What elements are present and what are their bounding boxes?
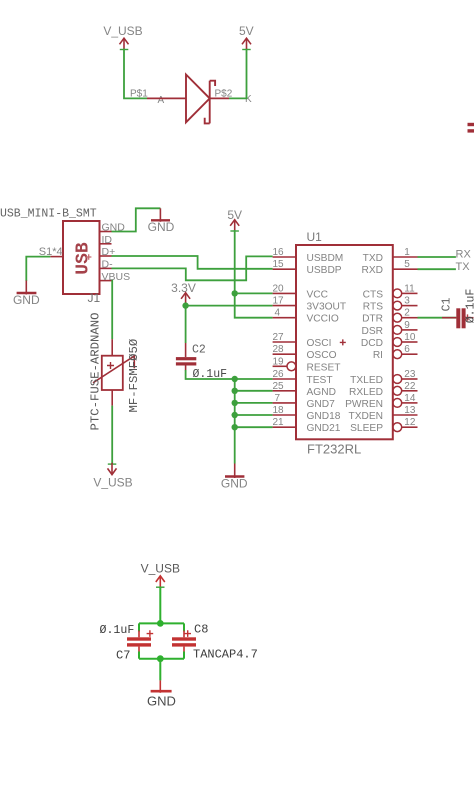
pin GND stub [100,231,112,233]
wire C7 bottom [138,652,140,659]
wire right drop to C8 [183,623,185,631]
pin 16 USBDM stub [273,256,296,258]
power flag V_USB (top) [103,24,142,50]
svg-text:PWREN: PWREN [345,399,383,410]
svg-text:23: 23 [404,369,416,380]
svg-text:3V3OUT: 3V3OUT [307,302,347,313]
svg-text:RXLED: RXLED [349,387,383,398]
pin 1 TXD stub [393,256,418,258]
junction TEST row [232,376,238,382]
svg-text:ID: ID [102,234,113,246]
wire left drop to C7 [138,623,140,631]
wire GND7 pin 7 [235,402,273,404]
svg-text:21: 21 [273,417,285,428]
pin 25 AGND stub [273,390,296,392]
svg-text:Ø.1uF: Ø.1uF [465,289,474,324]
svg-text:USBDP: USBDP [307,265,342,276]
wire cathode to 5V [229,49,247,99]
svg-text:1: 1 [404,247,410,258]
svg-text:RESET: RESET [307,362,341,373]
pin VBUS stub [100,280,112,282]
svg-text:27: 27 [273,332,285,343]
junction 3.3V node [182,302,188,308]
pin 23 TXLED stub (inverted) [393,375,402,384]
GND rail vertical [234,379,236,464]
U1 left pin names [307,253,347,434]
pin 4 VCCIO stub [273,317,296,319]
svg-text:13: 13 [404,405,416,416]
pin D- stub [100,267,112,269]
pin 22 RXLED stub (inverted) [393,386,402,395]
wire down to ground [159,659,161,681]
pin 20 VCC stub [273,292,296,294]
svg-text:15: 15 [273,259,285,270]
svg-text:DSR: DSR [361,326,383,337]
fuse bottom lead [111,390,113,406]
junction GND21 [232,424,238,430]
svg-text:6: 6 [404,344,410,355]
svg-text:V_USB: V_USB [103,24,142,38]
svg-text:USBDM: USBDM [307,253,344,264]
wire GND18 pin 18 [235,414,273,416]
svg-text:USB_MINI-B_SMT: USB_MINI-B_SMT [0,208,97,221]
wire RXD to TX [418,268,456,270]
svg-text:GND: GND [221,476,248,490]
wire top cap rail [139,622,184,624]
wire D+ net (to USBDP pin 15) [112,256,273,269]
power flag 3.3V [171,281,196,304]
svg-text:GND: GND [147,694,176,709]
svg-text:12: 12 [404,417,416,428]
power flag V_USB (down) [93,463,132,490]
pin 27 OSCI stub [273,341,296,343]
svg-text:SLEEP: SLEEP [350,423,383,434]
junction bottom cap rail [157,655,164,662]
svg-text:CTS: CTS [363,289,384,300]
svg-text:3: 3 [404,296,410,307]
wire C8 bottom [183,652,185,659]
svg-text:VCC: VCC [307,289,329,300]
pin 11 CTS stub (inverted) [393,289,402,298]
wire shield to GND [26,257,50,281]
svg-text:OSCO: OSCO [307,350,337,361]
svg-text:RXD: RXD [361,265,383,276]
svg-text:RTS: RTS [363,302,383,313]
svg-text:DTR: DTR [362,314,383,325]
plus mark near OSCI [340,339,346,345]
pin ID stub [100,243,112,245]
svg-text:TX: TX [456,261,471,273]
svg-text:GND7: GND7 [307,399,336,410]
wire 5V down to VCC [234,230,236,293]
ground (USB GND) [148,208,175,234]
svg-text:TXLED: TXLED [350,375,383,386]
clipped capacitor at right edge [468,123,474,133]
wire bottom cap rail [139,658,184,660]
wire VBUS down to fuse [111,281,114,340]
capacitor C1 [442,308,474,328]
svg-text:22: 22 [404,381,416,392]
wire TXD to RX [418,256,456,258]
ground (bottom) [147,680,176,708]
shield pin S1 stub [50,256,63,258]
svg-text:17: 17 [273,296,285,307]
wire fuse to V_USB flag [111,406,113,464]
svg-text:AGND: AGND [307,387,336,398]
svg-text:VCCIO: VCCIO [307,314,339,325]
pin 15 USBDP stub [273,268,296,270]
svg-text:14: 14 [404,393,416,404]
ground (shield) [13,281,40,308]
svg-text:P$1: P$1 [130,89,148,100]
svg-text:TEST: TEST [307,375,333,386]
diode D1 (schottky) [186,75,215,124]
junction 5V/VCC [232,290,238,296]
diode cathode lead [210,97,229,99]
svg-text:20: 20 [273,283,285,294]
svg-text:5V: 5V [239,24,254,38]
svg-text:GND18: GND18 [307,411,341,422]
wire D- net (to USBDM pin 16) [112,256,273,280]
pin 7 GND7 stub [273,402,296,404]
svg-text:PTC-FUSE-ARDNANO: PTC-FUSE-ARDNANO [88,312,102,430]
capacitor C2 [176,343,196,371]
svg-text:2: 2 [404,308,410,319]
pin 14 PWREN stub (inverted) [393,399,402,408]
svg-text:7: 7 [275,393,281,404]
svg-text:18: 18 [273,405,285,416]
wire 3.3V down to C2 [185,306,187,343]
svg-text:V_USB: V_USB [141,562,180,576]
diode D1 anode lead [147,97,186,99]
svg-text:TXD: TXD [363,253,383,264]
svg-text:16: 16 [273,247,285,258]
U1 right pin names [345,253,383,434]
svg-text:28: 28 [273,344,285,355]
junction AGND [232,388,238,394]
svg-text:GND: GND [13,293,40,307]
svg-text:4: 4 [275,308,281,319]
wire to VCC pin 20 [235,292,273,294]
svg-text:C2: C2 [192,344,206,357]
svg-text:26: 26 [273,369,285,380]
junction top cap rail [157,620,164,627]
svg-text:OSCI: OSCI [307,338,332,349]
svg-text:9: 9 [404,320,410,331]
pin 9 DSR stub (inverted) [393,326,402,335]
wire DTR to C1 [418,317,457,319]
svg-text:11: 11 [404,283,415,294]
pin 21 GND21 stub [273,426,296,428]
op-amp U1 body [296,245,393,439]
junction GND18 [232,412,238,418]
svg-text:3.3V: 3.3V [171,281,196,295]
pin 2 DTR stub (inverted) [393,313,402,322]
pin 5 RXD stub [393,268,418,270]
svg-text:DCD: DCD [361,338,383,349]
svg-text:GND21: GND21 [307,423,341,434]
wire AGND pin 25 [235,390,273,392]
svg-text:MF-FSMFØ5Ø: MF-FSMFØ5Ø [127,338,141,412]
pin 3 RTS stub (inverted) [393,301,402,310]
wire V_USB down to caps [159,587,161,624]
svg-text:RI: RI [373,350,383,361]
junction GND7 [232,400,238,406]
fuse top lead [111,339,113,356]
svg-text:D-: D- [102,259,114,271]
plus mark on USB symbol [86,254,91,259]
capacitor C8 [172,630,196,653]
svg-text:25: 25 [273,381,285,392]
pin 13 TXDEN stub [393,414,418,416]
wire GND21 pin 21 [235,426,273,428]
pin D+ stub [100,255,112,257]
svg-text:TANCAP4.7: TANCAP4.7 [193,648,258,662]
wire USB GND pin to ground [112,208,161,231]
svg-text:GND: GND [148,220,175,234]
capacitor C7 [127,630,153,653]
pin 17 3V3OUT stub [273,305,296,307]
svg-text:FT232RL: FT232RL [307,442,361,457]
fuse F1 body MF-FSMF050 [93,356,134,391]
svg-text:TXDEN: TXDEN [348,411,383,422]
pin 6 RI stub (inverted) [393,350,402,359]
connector J1 body [63,221,100,294]
wire 3.3V to 3V3OUT pin 17 [186,305,273,307]
svg-text:19: 19 [273,356,285,367]
svg-text:C7: C7 [116,649,130,663]
svg-text:A: A [158,95,165,106]
pin 26 TEST stub [273,378,296,380]
pin 12 SLEEP stub (inverted) [393,423,402,432]
pin 10 DCD stub (inverted) [393,338,402,347]
svg-text:C8: C8 [194,623,208,637]
svg-text:V_USB: V_USB [93,476,132,490]
power flag 5V (top) [239,24,254,50]
pin 18 GND18 stub [273,414,296,416]
svg-text:10: 10 [404,332,416,343]
power flag V_USB (bottom) [141,562,180,588]
svg-text:C1: C1 [441,298,454,312]
pin 28 OSCO stub [273,353,296,355]
wire C2 bottom to GND rail / TEST pin 26 [186,370,273,379]
svg-text:5: 5 [404,259,410,270]
pin 19 RESET stub (inverted) [273,365,287,367]
power flag 5V (mid) [227,208,242,232]
wire V_USB to diode anode [124,49,147,99]
svg-text:USB: USB [74,242,94,275]
ground (U1) [221,464,248,491]
svg-text:VBUS: VBUS [102,271,131,283]
svg-text:RX: RX [456,249,472,261]
svg-text:Ø.1uF: Ø.1uF [100,624,135,637]
svg-text:U1: U1 [307,230,323,244]
wire 5V to VCCIO pin 4 [235,293,273,317]
svg-text:J1: J1 [88,291,101,305]
